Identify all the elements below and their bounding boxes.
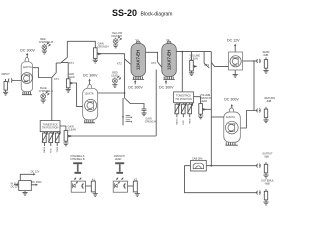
wire V1 plate out to KT1 — [33, 68, 52, 78]
footswitch channel A/B label — [70, 155, 85, 161]
wire top crunch feed — [67, 41, 95, 48]
ground (return jack) — [263, 120, 268, 123]
jack RETURN — [257, 97, 275, 120]
ground (power supply) — [22, 191, 27, 196]
input jack J1 — [2, 72, 22, 92]
svg-text:TREB: TREB — [57, 146, 59, 152]
wire gain lead wiper to V2 grid — [73, 83, 83, 107]
ground (out emul jack) — [263, 202, 268, 205]
svg-text:CAB SIM: CAB SIM — [192, 157, 202, 160]
svg-text:KT1: KT1 — [54, 77, 59, 81]
ground (gain crunch pot) — [93, 60, 98, 63]
output bus riser — [210, 52, 212, 166]
ground (volume clean pot) — [189, 73, 194, 76]
jack OUT EMUL — [257, 180, 275, 203]
wire gain crunch wiper to KT2 — [100, 54, 125, 59]
svg-text:CRUNCH: CRUNCH — [98, 46, 109, 49]
potentiometer VOLUME CLEAN — [190, 52, 201, 73]
block power supply PS1 — [11, 181, 32, 191]
relay contact KT1.1 — [52, 63, 60, 81]
svg-text:Block-diagram: Block-diagram — [141, 12, 173, 18]
wire send-return normal — [254, 61, 258, 111]
LED blue channel A — [39, 87, 53, 100]
potentiometer VOLUME CRUNCH LEAD — [194, 94, 211, 116]
svg-text:-9dB: -9dB — [264, 183, 270, 186]
svg-text:CRUNCH: CRUNCH — [111, 35, 122, 38]
svg-text:DC 300V: DC 300V — [159, 85, 174, 89]
svg-text:KT1: KT1 — [69, 61, 74, 65]
gain caps C1 C2 (crunch boost) — [122, 98, 132, 125]
wire cab sim in — [185, 166, 258, 193]
potentiometer BASS (ch A) — [42, 132, 48, 153]
optocoupler U2 (channel switch) — [71, 178, 85, 192]
svg-text:CLEAN: CLEAN — [68, 128, 77, 131]
wire ps to DC 300V rail — [31, 181, 42, 186]
ground (relay K2) — [135, 194, 140, 197]
svg-text:LEAD: LEAD — [115, 158, 122, 161]
svg-text:12AX7-EH: 12AX7-EH — [166, 50, 171, 70]
svg-text:12AX7-EH: 12AX7-EH — [136, 50, 141, 70]
svg-text:SS-20: SS-20 — [112, 8, 137, 18]
tube V3 12AX7-EH (gray, crunch/lead stage) — [131, 38, 146, 79]
potentiometer MIDDLE (ch A) — [48, 132, 53, 153]
jack SEND — [257, 51, 270, 70]
potentiometer TREBLE (ch B) — [187, 103, 193, 125]
ground (volume crunch lead pot) — [198, 116, 203, 119]
potentiometer GAIN CLEAN — [60, 125, 76, 143]
svg-text:TW POSITION: TW POSITION — [42, 127, 59, 130]
DC 300V supply (V2 lead tube) — [83, 73, 98, 85]
wire V4 out main bus — [176, 51, 211, 53]
label gain crunch caps — [145, 118, 156, 124]
svg-text:DC 300V: DC 300V — [128, 85, 143, 89]
svg-text:0dB: 0dB — [264, 156, 269, 159]
ground (buffer) — [233, 74, 238, 77]
ground (red lead LED) — [112, 85, 117, 88]
svg-text:DC 12V: DC 12V — [227, 38, 240, 42]
svg-text:KT2: KT2 — [117, 61, 122, 65]
potentiometer GAIN CRUNCH — [94, 43, 109, 61]
wire V5 out to bus — [211, 116, 224, 118]
junction V2 out — [124, 92, 126, 94]
junction wiper — [99, 53, 101, 55]
relay contact KT3 (bypass) — [204, 52, 228, 68]
svg-text:DC 300V: DC 300V — [20, 49, 35, 53]
DC 300V supply (V4) — [159, 80, 174, 89]
svg-text:BASS: BASS — [176, 118, 179, 124]
svg-text:12AX7A: 12AX7A — [226, 116, 236, 119]
svg-text:-6dB: -6dB — [266, 100, 272, 103]
DC 300V supply (V3) — [128, 80, 143, 89]
svg-text:LEAD: LEAD — [111, 75, 118, 78]
relay contact KT1.2 — [61, 41, 74, 65]
relay K2 — [128, 177, 138, 193]
junction to tonestack 2 — [182, 51, 184, 53]
wire buffer out to send — [243, 60, 258, 62]
ground (input jack) — [3, 92, 8, 95]
ground (gain clean pot) — [63, 143, 68, 146]
wire clean path riser — [155, 70, 157, 136]
LED red lead — [111, 72, 120, 85]
block tonestack 1 — [40, 121, 60, 132]
svg-text:CHANNEL B: CHANNEL B — [70, 158, 85, 161]
svg-text:DC 300V: DC 300V — [32, 181, 42, 184]
potentiometer BASS (ch B) — [175, 103, 181, 125]
ground (red channel B LED) — [42, 51, 47, 54]
wire vol crunch wiper to bus — [205, 108, 211, 110]
tube V1 (12AX7 triode, input stage) — [21, 57, 32, 94]
title SS-20 Block-diagram — [112, 8, 172, 18]
wire clean bus to KT2 riser — [71, 135, 157, 137]
svg-text:DC 300V: DC 300V — [83, 73, 98, 77]
svg-text:12AX7A: 12AX7A — [84, 92, 94, 95]
optocoupler U3 (crunch/lead switch) — [113, 178, 127, 192]
svg-text:MID: MID — [183, 120, 185, 124]
relay contact KT2.2 — [151, 61, 162, 68]
svg-text:LEAD: LEAD — [201, 100, 208, 103]
ground (blue channel A LED) — [41, 100, 46, 103]
wire KT1 to KT1.2 — [56, 62, 61, 64]
footswitch button SW2 — [115, 162, 124, 173]
tube V2 (12AX7 triode, lead stage) — [83, 84, 98, 122]
ground (relay K1) — [93, 194, 98, 197]
wire V1 clean out to tonestack 1 — [51, 78, 53, 121]
junction gain clean wiper — [70, 135, 72, 137]
wire return to V5 grid — [240, 111, 254, 129]
svg-text:BASS: BASS — [43, 146, 46, 152]
svg-text:-6dB: -6dB — [263, 54, 269, 57]
wire ps to DC 12V rail — [20, 170, 39, 180]
DC 300V supply (V5) — [224, 98, 239, 112]
wire V2 plate out — [98, 92, 125, 94]
ground (yellow crunch LED) — [113, 45, 118, 48]
buffer U1 (fx send driver) — [229, 52, 243, 74]
DC 12V supply (fx buffer) — [227, 38, 240, 52]
DC 300V supply (V1) — [20, 49, 35, 58]
ground (output jack) — [263, 175, 268, 178]
svg-text:INPUT: INPUT — [2, 72, 11, 76]
contact + bright cap to ground (crunch voicing) — [125, 98, 147, 116]
svg-text:MID: MID — [51, 148, 53, 152]
svg-text:DC 300V: DC 300V — [224, 98, 239, 102]
potentiometer TREBLE (ch A) — [55, 132, 61, 153]
footswitch button SW1 — [73, 162, 82, 173]
wire V3 out to KT2.2 — [146, 52, 158, 62]
wire bus to output jack — [206, 165, 257, 167]
potentiometer MIDDLE (ch B) — [181, 103, 187, 125]
tube V4 12AX7-EH (gray, output stage) — [162, 38, 177, 79]
svg-text:KT2: KT2 — [151, 61, 156, 65]
svg-text:12AX7A: 12AX7A — [23, 66, 33, 69]
footswitch crunch/lead label — [114, 155, 125, 161]
LED red channel B — [39, 38, 54, 51]
svg-text:CRUNCH: CRUNCH — [145, 121, 156, 124]
block tonestack 2 — [174, 92, 194, 103]
svg-text:TW POSITION: TW POSITION — [175, 98, 192, 101]
tube V5 (12AX7 triode, output driver) — [224, 108, 241, 145]
relay K1 — [86, 177, 96, 193]
wire lead path riser — [124, 59, 126, 98]
relay contact KT2 — [117, 59, 131, 65]
svg-text:CHANNEL B: CHANNEL B — [39, 41, 54, 44]
ground (send jack) — [263, 70, 268, 73]
jack OUTPUT — [257, 153, 273, 176]
wire lead-pot feed — [61, 63, 68, 79]
potentiometer GAIN LEAD — [66, 73, 74, 90]
svg-text:TREB: TREB — [190, 118, 192, 124]
block CAB SIM — [191, 157, 207, 171]
ground (gain lead pot) — [66, 89, 71, 92]
junction output bus / cab sim — [210, 165, 212, 167]
LED yellow crunch — [111, 32, 123, 45]
svg-text:DC 12V: DC 12V — [31, 170, 40, 173]
